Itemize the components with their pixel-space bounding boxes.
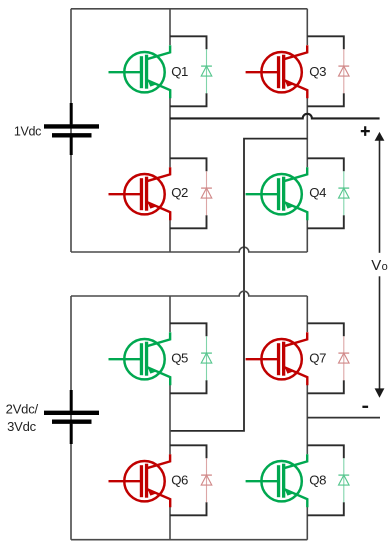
wire: bottom bridge right leg segments (to Q7 collector, Q7 emitter to Q8 collector, Q8 emitter down) — [306, 296, 308, 540]
svg-text:Q6: Q6 — [171, 473, 188, 488]
diode D8 (antiparallel with Q8) — [338, 458, 349, 502]
diode D4 (antiparallel with Q4) — [338, 171, 349, 215]
battery V1 1Vdc: top lead — [70, 103, 73, 124]
freewheel-diode loop wire for Q7 — [307, 323, 344, 393]
wire: negative output line from node between Q7 and Q8 — [307, 417, 380, 419]
svg-text:Q7: Q7 — [309, 351, 326, 366]
battery V2 2Vdc/3Vdc: positive long plate — [44, 411, 99, 415]
wire: top bridge left leg segments (to Q1 collector, Q1 emitter to Q2 collector, Q2 emitter down) — [169, 9, 171, 252]
diode D5 (antiparallel with Q5) — [201, 336, 212, 380]
battery V1 1Vdc: positive long plate — [44, 124, 99, 128]
freewheel-diode loop wire for Q6 — [170, 445, 207, 515]
diode D3 (antiparallel with Q3) — [338, 49, 349, 93]
freewheel-diode loop wire for Q1 — [170, 36, 207, 106]
svg-text:Q2: Q2 — [171, 185, 188, 200]
node -: negative output terminal symbol — [362, 406, 368, 408]
wire: positive output line from node between Q1 and Q2, hop over right leg — [170, 114, 380, 119]
wire: bottom H-bridge left battery rail — [70, 296, 72, 540]
wire: bottom H-bridge bottom rail — [71, 539, 307, 541]
svg-text:o: o — [382, 261, 388, 273]
svg-text:Q8: Q8 — [309, 473, 326, 488]
freewheel-diode loop wire for Q4 — [307, 158, 344, 228]
wire: top H-bridge bottom rail with hop over cascade link — [71, 247, 307, 252]
transistor Q1 (IGBT) — [109, 45, 171, 98]
freewheel-diode loop wire for Q8 — [307, 445, 344, 515]
transistor Q3 (IGBT) — [246, 45, 308, 98]
wire: bottom H-bridge top rail with hop over cascade link — [71, 291, 307, 296]
svg-text:Q4: Q4 — [309, 185, 326, 200]
freewheel-diode loop wire for Q5 — [170, 323, 207, 393]
wire: bottom bridge left leg segments (to Q5 collector, Q5 emitter to Q6 collector, Q6 emitter down) — [169, 296, 171, 540]
battery V2 2Vdc/3Vdc: top lead — [70, 390, 73, 411]
wire: top H-bridge top rail — [71, 8, 307, 10]
transistor Q8 (IGBT) — [246, 454, 308, 507]
battery V2 2Vdc/3Vdc: negative short plate — [52, 420, 92, 424]
transistor Q7 (IGBT) — [246, 332, 308, 385]
diode D1 (antiparallel with Q1) — [201, 49, 212, 93]
freewheel-diode loop wire for Q2 — [170, 158, 207, 228]
battery V1 1Vdc: bottom lead — [70, 137, 73, 155]
svg-text:3Vdc: 3Vdc — [7, 419, 37, 434]
freewheel-diode loop wire for Q3 — [307, 36, 344, 106]
Vo arrow: upper segment with up arrowhead — [375, 132, 385, 253]
node +: positive output terminal symbol — [361, 126, 370, 136]
svg-text:Q5: Q5 — [171, 351, 188, 366]
svg-text:V: V — [371, 257, 381, 274]
wire: top H-bridge left battery rail — [70, 9, 72, 252]
diode D6 (antiparallel with Q6) — [201, 458, 212, 502]
diode D7 (antiparallel with Q7) — [338, 336, 349, 380]
svg-text:1Vdc: 1Vdc — [14, 125, 41, 139]
svg-text:Q3: Q3 — [309, 64, 326, 79]
diode D2 (antiparallel with Q2) — [201, 171, 212, 215]
battery V1 1Vdc: negative short plate — [52, 133, 92, 137]
wire: top bridge right leg segments (to Q3 collector, Q3 emitter to Q4 collector, Q4 emitter down) — [306, 9, 308, 252]
transistor Q4 (IGBT) — [246, 167, 308, 220]
transistor Q6 (IGBT) — [109, 454, 171, 507]
transistor Q5 (IGBT) — [109, 332, 171, 385]
Vo arrow: lower segment with down arrowhead — [375, 276, 385, 397]
wire: cascade link from node between Q3/Q4 to node between Q5/Q6 — [170, 139, 307, 431]
transistor Q2 (IGBT) — [109, 167, 171, 220]
svg-text:Q1: Q1 — [171, 64, 188, 79]
battery V2 2Vdc/3Vdc: bottom lead — [70, 424, 73, 444]
svg-text:2Vdc/: 2Vdc/ — [6, 402, 39, 417]
